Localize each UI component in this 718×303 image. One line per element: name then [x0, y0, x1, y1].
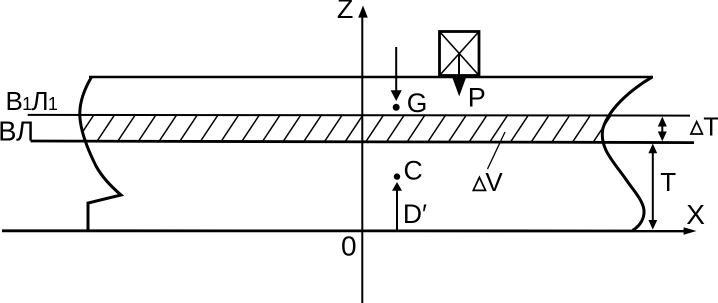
waterline VL (lower) [31, 141, 695, 143]
bow break curve [80, 77, 121, 231]
arrow to point C [392, 182, 402, 230]
Z axis [361, 10, 363, 303]
arrow to point G [391, 47, 402, 101]
leader line to ΔV [488, 132, 506, 169]
stern break curve [602, 77, 652, 231]
svg-text:0: 0 [341, 230, 357, 261]
dimension arrow T [648, 144, 657, 230]
svg-text:D′: D′ [403, 199, 427, 229]
svg-text:T: T [660, 167, 676, 197]
point G dot [393, 104, 400, 111]
svg-text:ВЛ: ВЛ [0, 115, 34, 146]
point C dot [394, 173, 400, 179]
svg-text:T: T [703, 111, 718, 141]
force arrow P [452, 54, 466, 96]
deck line [89, 76, 653, 78]
svg-text:G: G [407, 88, 428, 118]
svg-text:V: V [485, 167, 503, 197]
X axis arrowhead [684, 227, 697, 235]
waterline B1L1 (upper) [28, 114, 690, 117]
svg-text:Z: Z [337, 0, 354, 24]
svg-text:X: X [686, 199, 705, 230]
X axis (keel line) [2, 229, 686, 232]
label ΔV [473, 177, 485, 190]
svg-text:C: C [404, 156, 423, 186]
Z axis arrowhead [358, 6, 368, 18]
svg-text:P: P [468, 83, 486, 113]
label ΔT [691, 122, 703, 134]
dimension arrow ΔT [658, 117, 667, 142]
svg-text:В1Л1: В1Л1 [6, 86, 58, 116]
hatched layer ΔV between waterlines [76, 115, 633, 143]
weight box P with cross [440, 32, 480, 76]
